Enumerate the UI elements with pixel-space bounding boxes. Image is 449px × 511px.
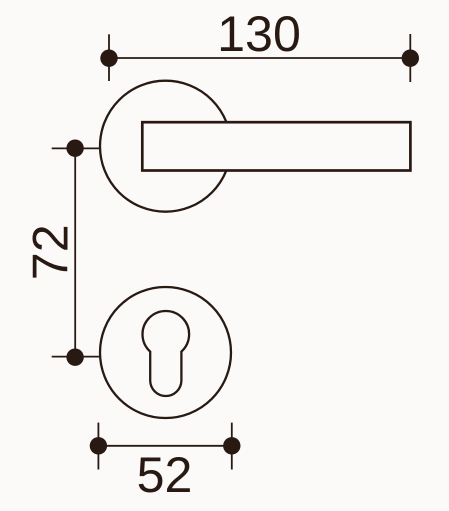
svg-text:72: 72 xyxy=(23,224,79,280)
escutcheon circle (bottom, key rose) xyxy=(100,287,231,418)
svg-text:130: 130 xyxy=(217,6,301,62)
extension tick lower of 72 dimension xyxy=(52,356,101,358)
extension tick left of 52 dimension xyxy=(97,423,99,470)
extension tick upper of 72 dimension xyxy=(52,147,100,149)
dimension dot left-lower xyxy=(66,349,83,366)
lever handle rectangle xyxy=(142,122,410,170)
dimension line 52 (bottom horizontal) xyxy=(98,445,231,447)
dimension line 130 (top horizontal) xyxy=(109,57,410,59)
keyhole (euro cylinder profile) xyxy=(143,311,190,396)
dimension dot bottom-right xyxy=(223,437,240,454)
extension tick left of 130 dimension xyxy=(108,34,110,81)
dimension dot left-upper xyxy=(66,140,83,157)
dimension dot top-left xyxy=(100,50,117,67)
extension tick right of 52 dimension xyxy=(231,423,233,470)
dimension dot top-right xyxy=(402,50,419,67)
svg-text:52: 52 xyxy=(137,447,193,503)
dimension dot bottom-left xyxy=(90,437,107,454)
extension tick right of 130 dimension xyxy=(409,34,411,82)
dimension line 72 (left vertical) xyxy=(74,148,76,357)
rosette circle (top, handle rose) xyxy=(100,81,231,212)
